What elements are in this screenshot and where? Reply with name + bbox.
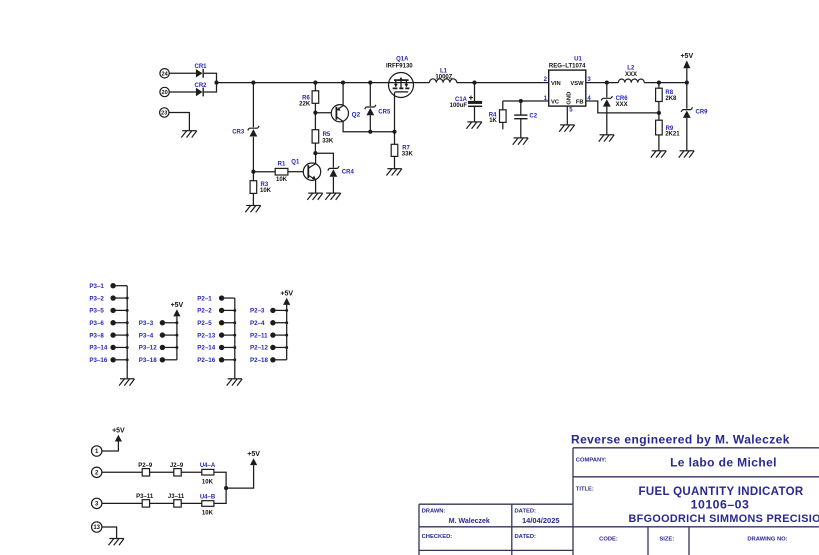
resistor R6 bbox=[312, 91, 319, 104]
wire U4 right side link bbox=[214, 472, 226, 503]
wire node to CR4 bbox=[315, 153, 333, 167]
svg-text:CHECKED:: CHECKED: bbox=[422, 534, 453, 540]
wire node to R3 bbox=[252, 172, 254, 181]
wire P3 +5V bus bbox=[176, 316, 178, 359]
wire node to +5V bbox=[226, 465, 254, 488]
ground CR6 ground bbox=[599, 135, 615, 142]
diode CR9 bbox=[681, 107, 692, 118]
svg-text:TITLE:: TITLE: bbox=[576, 486, 594, 492]
svg-text:P3–16: P3–16 bbox=[89, 357, 107, 364]
svg-text:P2–2: P2–2 bbox=[197, 308, 212, 315]
connector pin P3&#8211;4 bbox=[139, 332, 177, 339]
svg-text:P3–1: P3–1 bbox=[89, 283, 104, 290]
connector pin P3&#8211;1 bbox=[89, 283, 127, 290]
connector pin P2&#8211;14 bbox=[197, 345, 235, 352]
wire gate net wire bbox=[370, 131, 394, 133]
wire pin1 to +5V bbox=[102, 442, 119, 452]
svg-text:P3–14: P3–14 bbox=[89, 345, 107, 352]
svg-text:SIZE:: SIZE: bbox=[659, 537, 674, 543]
diode CR2 bbox=[196, 88, 203, 97]
node bus node P2&#8211;3 bbox=[285, 309, 288, 312]
connector pin P3&#8211;5 bbox=[89, 308, 127, 315]
diode CR5 bbox=[365, 105, 376, 116]
node node gate/R7 bbox=[392, 130, 396, 134]
ground U1 ground bbox=[559, 125, 575, 132]
connector pin P3&#8211;14 bbox=[89, 345, 127, 352]
svg-text:22K: 22K bbox=[299, 102, 311, 108]
connector pin P2&#8211;18 bbox=[250, 357, 287, 364]
wire R6 to node bbox=[314, 103, 316, 112]
svg-text:XXX: XXX bbox=[616, 102, 628, 108]
svg-text:DRAWING NO:: DRAWING NO: bbox=[747, 537, 787, 543]
svg-text:10K: 10K bbox=[202, 479, 214, 485]
wire CR5 to gate net bbox=[369, 115, 371, 132]
wire pin20 to CR2 bbox=[169, 91, 196, 93]
svg-text:Q1A: Q1A bbox=[396, 56, 409, 62]
wire +5V stem bbox=[686, 68, 688, 82]
capacitor C2 bbox=[514, 101, 527, 138]
wire node to R1 bbox=[253, 171, 275, 173]
svg-text:P2–14: P2–14 bbox=[197, 345, 215, 352]
svg-text:Reverse engineered by M. Walec: Reverse engineered by M. Waleczek bbox=[571, 433, 790, 447]
svg-text:Le labo de Michel: Le labo de Michel bbox=[670, 455, 777, 469]
svg-text:DATED:: DATED: bbox=[515, 534, 537, 540]
svg-text:VIN: VIN bbox=[551, 81, 561, 87]
wire rail L1 to VIN bbox=[457, 82, 549, 84]
svg-text:P2–18: P2–18 bbox=[250, 357, 268, 364]
svg-text:FB: FB bbox=[576, 99, 584, 105]
svg-text:23: 23 bbox=[161, 111, 167, 117]
resistor R5 bbox=[312, 130, 319, 143]
svg-text:2K8: 2K8 bbox=[665, 96, 677, 102]
svg-text:CR1: CR1 bbox=[195, 64, 208, 70]
svg-text:10106–03: 10106–03 bbox=[691, 498, 750, 512]
svg-text:P2–12: P2–12 bbox=[250, 345, 268, 352]
ground Q1 ground bbox=[307, 193, 323, 200]
connector pin P3&#8211;8 bbox=[89, 332, 127, 339]
wire pin2 row wire bbox=[102, 471, 202, 473]
connector pin 1 bbox=[92, 446, 102, 456]
node node R6/R5/Q2base bbox=[313, 111, 317, 115]
wire node to R9 bbox=[658, 113, 660, 120]
ground CR4 ground bbox=[325, 193, 341, 200]
svg-text:C1A: C1A bbox=[455, 97, 468, 103]
ground C1A ground bbox=[466, 122, 482, 129]
wire rail to CR9 bbox=[686, 83, 688, 109]
svg-text:P3–3: P3–3 bbox=[139, 320, 154, 327]
wire Q1 collector up bbox=[315, 153, 317, 163]
svg-text:R6: R6 bbox=[302, 95, 310, 101]
svg-text:24: 24 bbox=[161, 71, 168, 77]
wire Q2 emitter to rail bbox=[342, 83, 344, 106]
wire rail to CR3 bbox=[252, 83, 254, 128]
connector pin P2&#8211;13 bbox=[197, 332, 235, 339]
svg-text:P2–11: P2–11 bbox=[250, 332, 268, 339]
wire CR2 to rail bbox=[204, 83, 217, 92]
wire CR6 to ground bbox=[606, 107, 608, 135]
svg-text:13: 13 bbox=[93, 525, 100, 531]
svg-text:CR2: CR2 bbox=[195, 83, 208, 89]
wire U1 GND pin wire bbox=[566, 106, 568, 125]
wire P2 ground bus bbox=[234, 298, 236, 379]
svg-text:VC: VC bbox=[551, 99, 560, 105]
power +5V pin1 bbox=[112, 428, 125, 442]
connector pin P3&#8211;18 bbox=[139, 357, 177, 364]
ground pin13 ground bbox=[109, 539, 125, 546]
svg-text:U4–B: U4–B bbox=[200, 495, 216, 501]
node bus node P3&#8211;14 bbox=[126, 346, 129, 349]
svg-text:U4–A: U4–A bbox=[200, 463, 216, 469]
wire pin24 to CR1 bbox=[169, 72, 196, 74]
node node CR5/gate bbox=[368, 130, 372, 134]
svg-text:Q2: Q2 bbox=[352, 111, 361, 118]
svg-text:CR4: CR4 bbox=[342, 170, 355, 176]
connector pin P2&#8211;1 bbox=[197, 295, 235, 302]
svg-text:2K21: 2K21 bbox=[665, 131, 680, 137]
svg-text:FUEL QUANTITY INDICATOR: FUEL QUANTITY INDICATOR bbox=[639, 486, 804, 498]
connector pin 20 bbox=[160, 87, 169, 96]
ground pin23 ground bbox=[181, 131, 197, 138]
wire CR1 to rail bbox=[204, 73, 217, 82]
node bus node P2&#8211;12 bbox=[285, 346, 288, 349]
svg-text:10K: 10K bbox=[202, 511, 214, 517]
wire P3 ground bus bbox=[126, 286, 128, 379]
wire R8 to node bbox=[658, 102, 660, 113]
resistor R4 bbox=[500, 110, 507, 123]
svg-text:R5: R5 bbox=[323, 132, 331, 138]
transistor Q1A (IRFF9130 P-MOSFET) bbox=[389, 73, 414, 98]
title block bbox=[419, 448, 819, 555]
svg-text:P3–6: P3–6 bbox=[89, 320, 104, 327]
svg-text:L2: L2 bbox=[627, 66, 635, 72]
svg-text:10K: 10K bbox=[276, 177, 288, 183]
wire gate wire up to Q1A bbox=[394, 92, 396, 132]
node bus node P3&#8211;6 bbox=[126, 321, 129, 324]
wire node to Q2 base bbox=[315, 112, 331, 114]
svg-text:M. Waleczek: M. Waleczek bbox=[449, 518, 490, 525]
node bus node P2&#8211;16 bbox=[233, 358, 236, 361]
svg-text:C2: C2 bbox=[529, 114, 537, 120]
svg-text:BFGOODRICH SIMMONS PRECISION: BFGOODRICH SIMMONS PRECISION bbox=[629, 513, 819, 525]
svg-text:+5V: +5V bbox=[280, 291, 293, 298]
svg-text:P3–11: P3–11 bbox=[136, 494, 154, 500]
connector pin P3&#8211;16 bbox=[89, 357, 127, 364]
resistor U4-A bbox=[200, 463, 216, 485]
wire pin3 row wire bbox=[102, 502, 202, 504]
svg-text:14/04/2025: 14/04/2025 bbox=[522, 516, 560, 525]
svg-text:P3–4: P3–4 bbox=[139, 332, 154, 339]
node bus node P3&#8211;4 bbox=[175, 334, 178, 337]
svg-text:P3–5: P3–5 bbox=[89, 308, 104, 315]
connector pin P2&#8211;4 bbox=[250, 320, 287, 327]
ground P3 bus ground bbox=[119, 379, 135, 386]
svg-text:100uF: 100uF bbox=[450, 103, 468, 109]
node bus node P2&#8211;4 bbox=[285, 321, 288, 324]
node rail junction CR3 bbox=[251, 81, 255, 85]
svg-text:1K: 1K bbox=[489, 118, 497, 124]
resistor R1 bbox=[275, 168, 288, 175]
svg-text:33K: 33K bbox=[402, 152, 414, 158]
connector pin 13 bbox=[92, 522, 102, 532]
svg-text:+5V: +5V bbox=[112, 428, 125, 435]
IC U1 REG-LT1074 bbox=[544, 56, 592, 113]
connector pin P3&#8211;12 bbox=[139, 345, 177, 352]
connector pin P2&#8211;16 bbox=[197, 357, 235, 364]
svg-text:1000Z: 1000Z bbox=[435, 74, 452, 80]
wire R3 to ground bbox=[252, 193, 254, 205]
connector pin 3 bbox=[92, 498, 102, 508]
power +5V P3 bus bbox=[171, 302, 184, 316]
node bus node P3&#8211;5 bbox=[126, 309, 129, 312]
transistor Q2 (PNP) bbox=[331, 105, 348, 122]
svg-text:VSW: VSW bbox=[570, 81, 584, 87]
connector pin 24 bbox=[160, 69, 169, 78]
svg-text:P2–3: P2–3 bbox=[250, 308, 265, 315]
node bus node P2&#8211;14 bbox=[233, 346, 236, 349]
svg-text:P3–12: P3–12 bbox=[139, 345, 157, 352]
svg-text:J2–9: J2–9 bbox=[170, 463, 184, 469]
svg-text:CODE:: CODE: bbox=[599, 537, 618, 543]
svg-text:P2–5: P2–5 bbox=[197, 320, 212, 327]
capacitor C1A (polarized) bbox=[468, 83, 482, 122]
ground C2 ground bbox=[513, 138, 529, 145]
ground R9 ground bbox=[651, 151, 667, 158]
node bus node P3&#8211;12 bbox=[175, 346, 178, 349]
node node R8 bbox=[657, 81, 661, 85]
svg-text:33K: 33K bbox=[322, 139, 334, 145]
svg-text:P2–16: P2–16 bbox=[197, 357, 215, 364]
diode CR1 bbox=[196, 69, 203, 78]
svg-text:R1: R1 bbox=[278, 162, 286, 168]
wire node to R5 bbox=[314, 113, 316, 130]
svg-text:+5V: +5V bbox=[171, 302, 184, 309]
transistor Q1 (NPN) bbox=[303, 163, 320, 180]
diode CR4 bbox=[328, 166, 339, 177]
wire Q1 emitter to ground bbox=[315, 180, 317, 193]
node bus node P2&#8211;2 bbox=[233, 309, 236, 312]
wire main rail left segment bbox=[217, 82, 430, 84]
svg-text:P2–4: P2–4 bbox=[250, 320, 265, 327]
wire pin23 to ground bbox=[169, 113, 189, 131]
node node CR9 bbox=[685, 81, 689, 85]
svg-text:20: 20 bbox=[161, 90, 167, 96]
svg-text:DATED:: DATED: bbox=[515, 508, 537, 514]
wire pin13 to ground bbox=[102, 527, 117, 539]
connector pin P2&#8211;3 bbox=[250, 308, 287, 315]
node bus node P3&#8211;16 bbox=[126, 358, 129, 361]
connector pin P2&#8211;5 bbox=[197, 320, 235, 327]
resistor U4-B bbox=[200, 495, 216, 517]
ground CR9 ground bbox=[679, 151, 695, 158]
wire R4 stub bbox=[502, 122, 504, 129]
diode CR6 bbox=[601, 96, 612, 106]
node node R5/Q1c/CR4 bbox=[313, 151, 317, 155]
wire P2 +5V bus bbox=[286, 305, 288, 360]
wire rail to CR5 bbox=[369, 83, 371, 107]
svg-text:COMPANY:: COMPANY: bbox=[576, 457, 607, 463]
node bus node P3&#8211;3 bbox=[175, 321, 178, 324]
node bus node P2&#8211;11 bbox=[285, 334, 288, 337]
connector pad J2-9 bbox=[170, 463, 184, 476]
diode CR3 bbox=[248, 126, 259, 137]
inductor L1 bbox=[430, 79, 457, 83]
connector pin 2 bbox=[92, 467, 102, 477]
wire CR3 to node R1/R3 bbox=[252, 137, 254, 172]
svg-text:P2–9: P2–9 bbox=[138, 463, 153, 469]
node bus node P2&#8211;13 bbox=[233, 334, 236, 337]
svg-text:IRFF9130: IRFF9130 bbox=[386, 63, 413, 69]
node node R1/R3 bbox=[251, 170, 255, 174]
svg-text:CR3: CR3 bbox=[232, 130, 245, 136]
node bus node P3&#8211;2 bbox=[126, 297, 129, 300]
node bus node P2&#8211;5 bbox=[233, 321, 236, 324]
node rail junction CR5 bbox=[368, 81, 372, 85]
svg-text:DRAWN:: DRAWN: bbox=[422, 508, 446, 514]
svg-text:+5V: +5V bbox=[247, 451, 260, 458]
wire R5 to node Q1 collector bbox=[314, 143, 316, 153]
connector pin P2&#8211;2 bbox=[197, 308, 235, 315]
svg-text:+5V: +5V bbox=[680, 53, 693, 60]
connector pin P3&#8211;3 bbox=[139, 320, 177, 327]
node node CR6 bbox=[605, 81, 609, 85]
wire to R4 bbox=[502, 101, 504, 110]
wire R9 to ground bbox=[658, 135, 660, 151]
wire rail to R6 bbox=[314, 83, 316, 91]
svg-text:P3–18: P3–18 bbox=[139, 357, 157, 364]
wire VC wire bbox=[503, 100, 549, 102]
svg-text:P3–2: P3–2 bbox=[89, 295, 104, 302]
node rail junction CR1/CR2 bbox=[214, 81, 218, 85]
wire rail to R8 bbox=[658, 83, 660, 89]
svg-text:CR9: CR9 bbox=[696, 109, 709, 115]
connector pad J3-11 bbox=[168, 494, 185, 507]
svg-text:P2–1: P2–1 bbox=[197, 295, 212, 302]
node rail junction R6 bbox=[313, 81, 317, 85]
ground R7 ground bbox=[386, 169, 402, 176]
wire rail to CR6 bbox=[606, 83, 608, 98]
power +5V main output bbox=[680, 53, 693, 68]
wire CR4 to ground bbox=[332, 177, 334, 193]
connector pad P3-11 bbox=[136, 494, 154, 507]
svg-text:Q1: Q1 bbox=[291, 159, 300, 165]
power +5V P2 bus bbox=[280, 291, 293, 305]
wire CR9 to ground bbox=[686, 118, 688, 151]
svg-text:XXX: XXX bbox=[625, 72, 637, 78]
svg-text:GND: GND bbox=[566, 92, 572, 105]
svg-text:P2–13: P2–13 bbox=[197, 332, 215, 339]
resistor R7 bbox=[391, 144, 398, 156]
resistor R8 bbox=[656, 88, 663, 101]
connector pin P3&#8211;6 bbox=[89, 320, 127, 327]
wire R7 to ground bbox=[394, 156, 396, 168]
resistor R9 bbox=[656, 120, 663, 135]
node rail junction Q2 emitter bbox=[341, 81, 345, 85]
svg-text:CR5: CR5 bbox=[378, 109, 391, 115]
wire node to R7 bbox=[394, 132, 396, 145]
wire Q2 collector to node bbox=[343, 121, 370, 131]
resistor R3 bbox=[250, 181, 257, 194]
wire L2 to +5V rail bbox=[644, 82, 687, 84]
svg-text:10K: 10K bbox=[260, 188, 272, 194]
connector pad P2-9 bbox=[138, 463, 153, 476]
node node U4/+5V bbox=[224, 486, 228, 490]
node node C1A bbox=[472, 81, 476, 85]
svg-text:P3–8: P3–8 bbox=[89, 332, 104, 339]
wire VSW to L2 bbox=[586, 82, 619, 84]
ground P2 bus ground bbox=[227, 379, 243, 386]
svg-text:U1: U1 bbox=[574, 56, 582, 62]
node node VC/C2 bbox=[519, 99, 523, 103]
wire R1 to Q1 base bbox=[288, 171, 304, 173]
svg-text:J3–11: J3–11 bbox=[168, 494, 185, 500]
wire FB wire to divider bbox=[586, 101, 659, 113]
power +5V U4 pullup bbox=[247, 451, 260, 465]
connector pin P2&#8211;12 bbox=[250, 345, 287, 352]
ground R3 ground bbox=[245, 206, 260, 213]
svg-text:REG–LT1074: REG–LT1074 bbox=[549, 64, 586, 70]
node bus node P3&#8211;8 bbox=[126, 334, 129, 337]
connector pin P2&#8211;11 bbox=[250, 332, 287, 339]
connector pin P3&#8211;2 bbox=[89, 295, 127, 302]
inductor L2 bbox=[618, 79, 644, 83]
node node R8/R9/FB bbox=[657, 111, 661, 115]
connector pin 23 bbox=[160, 108, 169, 117]
